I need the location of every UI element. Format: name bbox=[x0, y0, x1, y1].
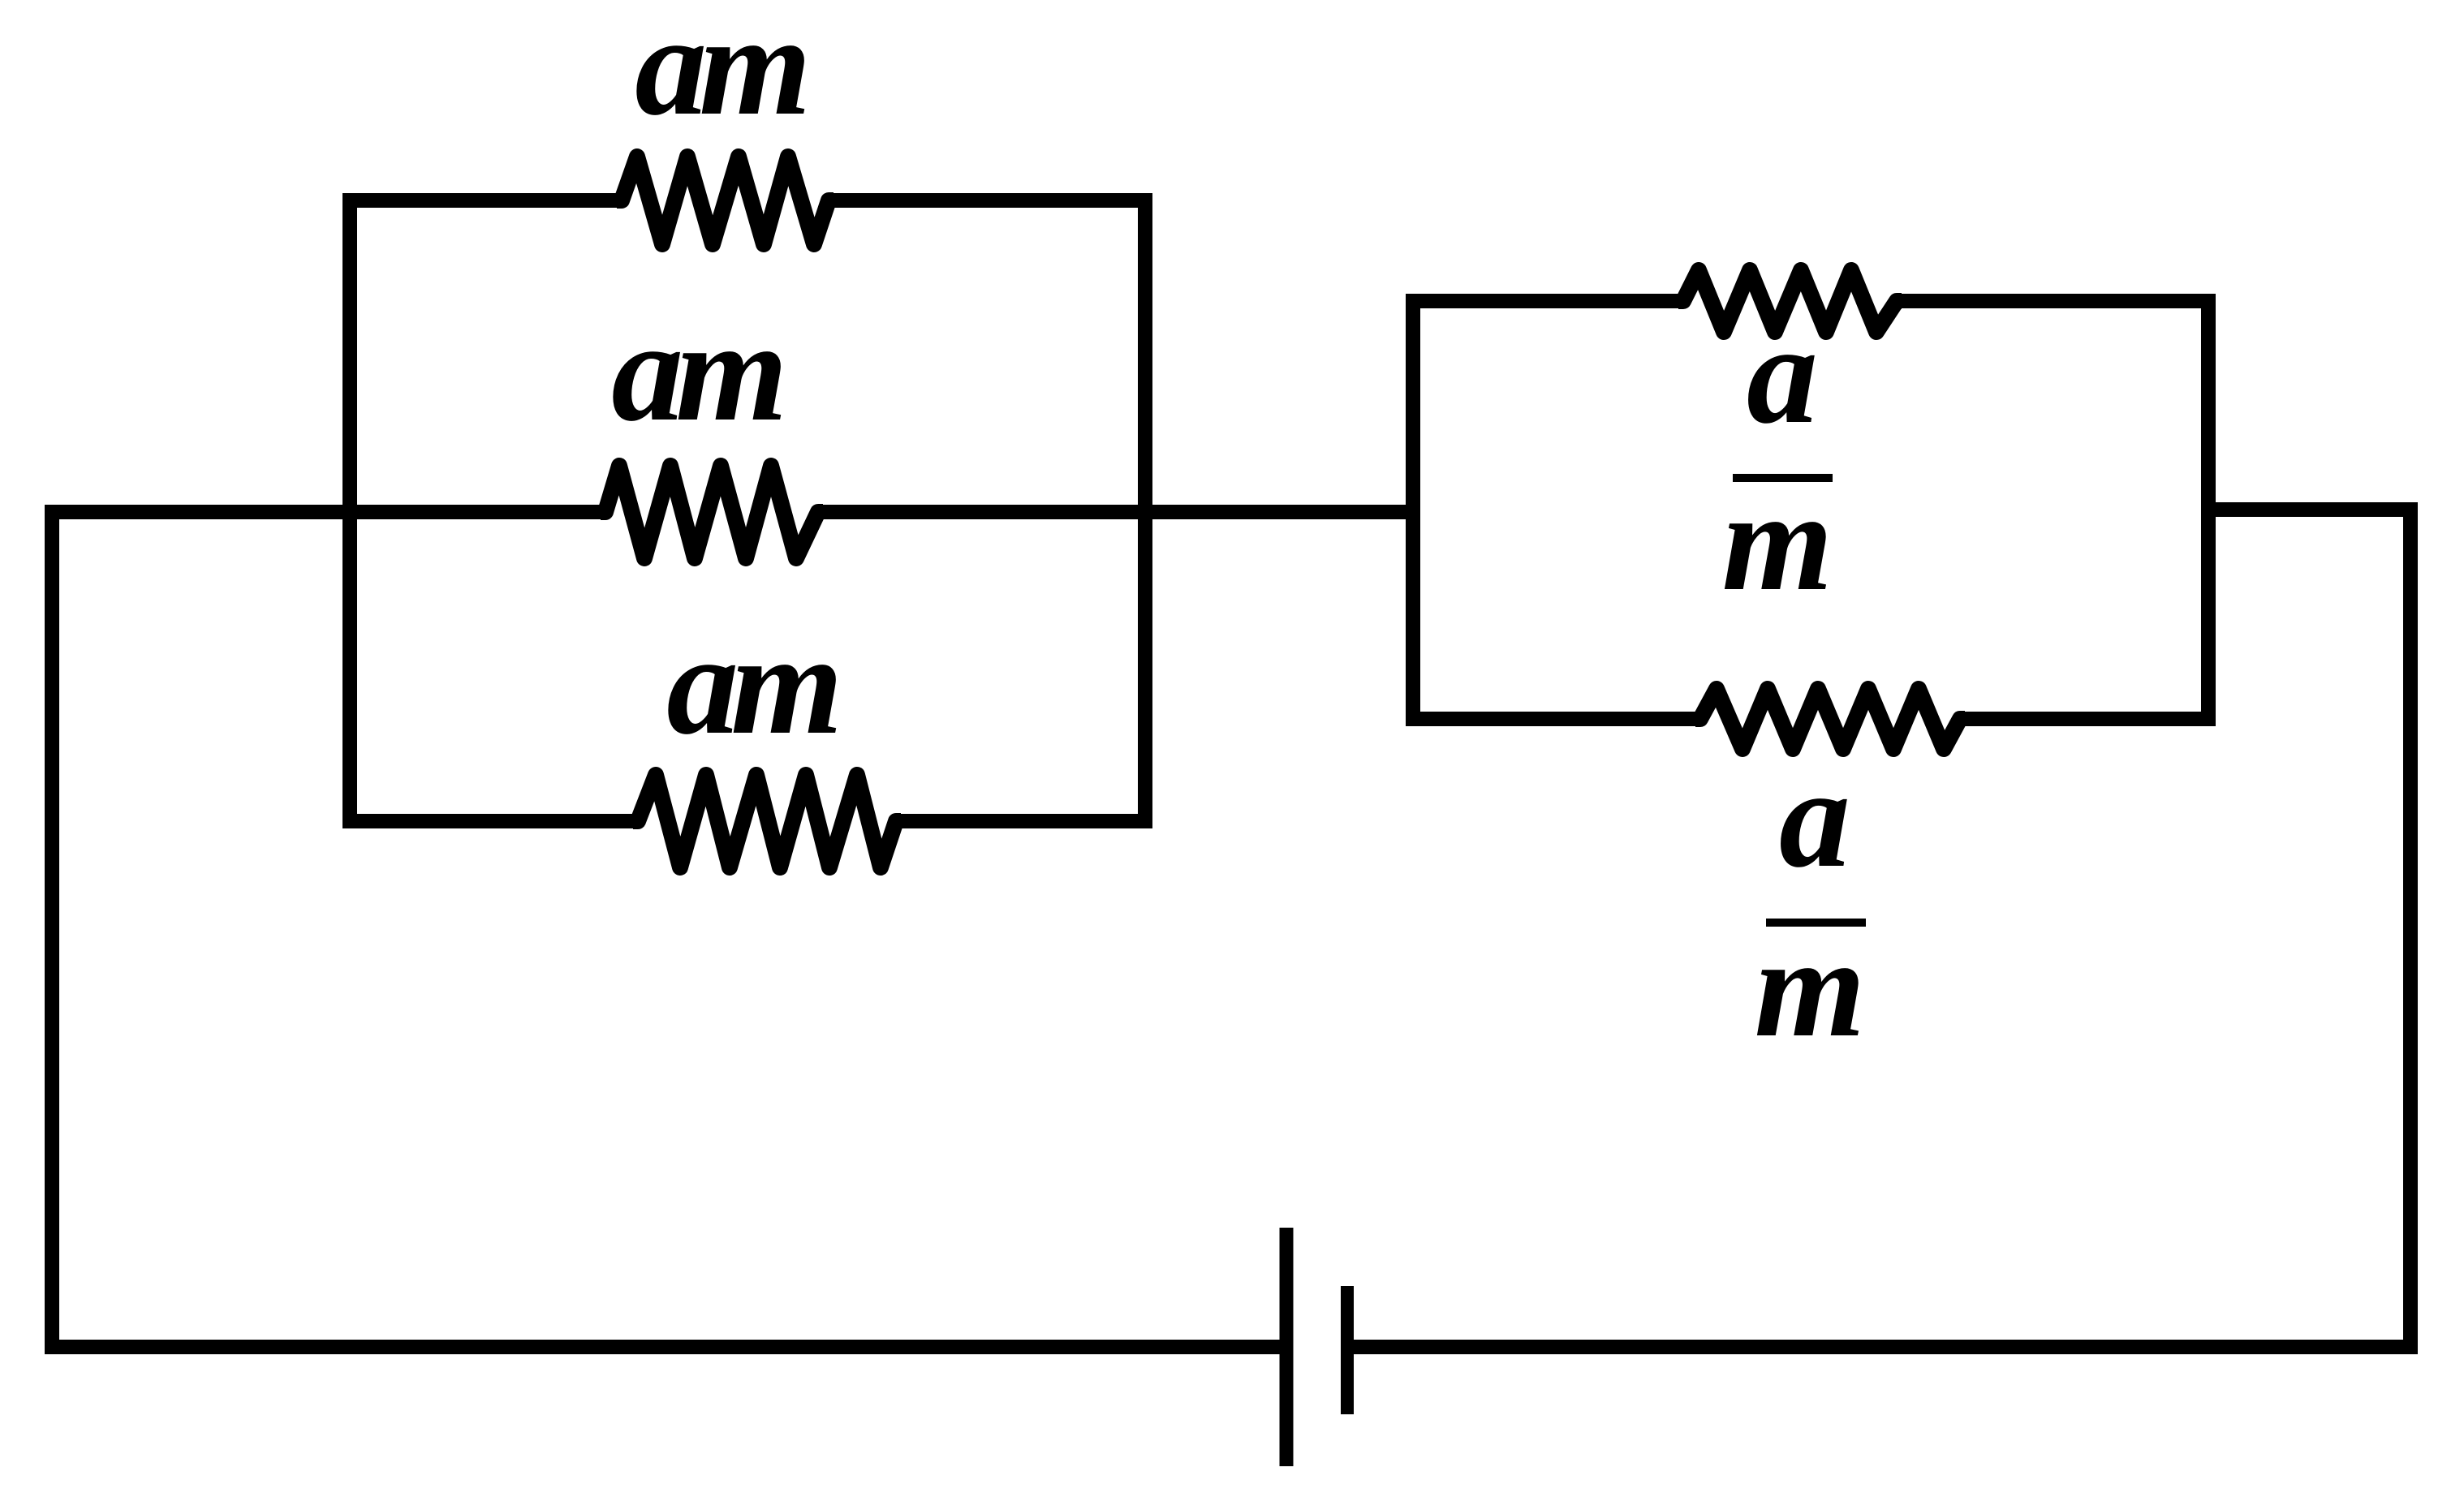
resistor R3 (bottom left, value am) bbox=[633, 775, 901, 867]
wire: left box left half outline bbox=[350, 200, 638, 821]
fraction bar (a/m for R4) bbox=[1733, 474, 1833, 482]
wire: middle wire between R2 and right box bbox=[818, 505, 1420, 519]
label am (R3) bbox=[666, 604, 836, 764]
battery B1 short plate bbox=[1341, 1286, 1354, 1414]
svg-text:m: m bbox=[1722, 463, 1833, 621]
label a (numerator of a/m for R5) bbox=[1779, 739, 1850, 897]
svg-text:m: m bbox=[1755, 909, 1866, 1067]
svg-text:a: a bbox=[1747, 295, 1818, 454]
resistor R5 (bottom right, value a/m) bbox=[1695, 689, 1965, 749]
label am (R2) bbox=[611, 290, 781, 451]
svg-text:am: am bbox=[666, 604, 836, 764]
wire: right box right half outline bbox=[1897, 301, 2208, 719]
resistor R4 (top right, value a/m) bbox=[1678, 270, 1902, 332]
label am (R1) bbox=[635, 0, 804, 145]
resistor R1 (top left, value am) bbox=[617, 157, 834, 244]
svg-text:a: a bbox=[1779, 739, 1850, 897]
wire: left box right half outline bbox=[829, 200, 1145, 821]
wire: outer loop left (bottom-left to middle wire into left box) bbox=[52, 512, 1280, 1347]
battery B1 long plate bbox=[1280, 1228, 1294, 1466]
wire: right box left half outline bbox=[1413, 301, 1700, 719]
svg-text:am: am bbox=[611, 290, 781, 451]
label m (denominator of a/m for R4) bbox=[1722, 463, 1833, 621]
wire: outer loop right (from battery to right box right side) bbox=[1347, 510, 2410, 1347]
svg-text:am: am bbox=[635, 0, 804, 145]
label a (numerator of a/m for R4) bbox=[1747, 295, 1818, 454]
resistor R2 (middle left, value am) bbox=[601, 466, 823, 558]
fraction bar (a/m for R5) bbox=[1766, 919, 1866, 927]
label m (denominator of a/m for R5) bbox=[1755, 909, 1866, 1067]
